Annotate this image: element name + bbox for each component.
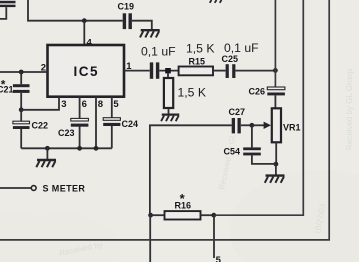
capacitor C23 — [71, 118, 89, 126]
wire pin 8 to bus — [95, 97, 97, 149]
svg-text:C21: C21 — [0, 84, 14, 94]
svg-text:C27: C27 — [229, 107, 246, 117]
S METER terminal circle — [31, 186, 36, 191]
ground bus under IC5 — [21, 147, 112, 149]
wire node to C21 — [20, 72, 22, 84]
arrow wiper of VR1 — [264, 122, 271, 129]
capacitor C25 — [226, 64, 236, 78]
paper texture blob — [0, 210, 120, 262]
wire node to R16 — [151, 214, 165, 216]
capacitor C27 — [232, 118, 241, 133]
op-amp IC5 — [48, 45, 125, 97]
node junction bus pin8 — [94, 146, 99, 151]
node junction C21/C22 — [19, 107, 24, 112]
node junction R16 right — [211, 213, 216, 218]
node junction bus ground tap — [45, 146, 50, 151]
wire C27 left to vertical feed — [150, 125, 232, 215]
capacitor C19 — [123, 13, 132, 29]
wire bus to ground — [46, 148, 48, 159]
wire node to ground — [275, 164, 277, 175]
svg-text:IC5: IC5 — [74, 64, 100, 79]
svg-text:5: 5 — [113, 99, 119, 110]
capacitor C24 — [103, 118, 120, 126]
potentiometer VR1 — [272, 108, 281, 142]
wire node to pin 3 — [21, 97, 59, 110]
svg-text:R16: R16 — [175, 201, 192, 211]
svg-text:C22: C22 — [32, 121, 49, 131]
wire VR1 bottom to node — [275, 142, 277, 164]
svg-text:Received by GL Group: Received by GL Group — [345, 68, 354, 150]
wire pin 5 to C24 — [111, 97, 113, 118]
wire C24 to bus — [111, 126, 113, 149]
wire pin 2 from left edge — [0, 71, 48, 73]
paper texture blob — [230, 170, 359, 262]
capacitor C22 — [13, 121, 30, 129]
ground for bus — [36, 160, 56, 167]
svg-text:2: 2 — [41, 62, 46, 73]
partial ground at top edge — [210, 0, 222, 3]
node junction C21 top — [19, 70, 24, 75]
wire R16 to node — [201, 214, 214, 216]
ground for shunt resistor — [161, 115, 179, 122]
svg-text:5: 5 — [216, 255, 222, 262]
svg-text:1: 1 — [126, 61, 132, 72]
node junction main vertical — [273, 68, 278, 73]
svg-text:C26: C26 — [249, 87, 266, 97]
wire node to VR1 wiper arrow — [252, 124, 264, 126]
node junction bus C23 — [77, 146, 82, 151]
svg-text:3: 3 — [61, 99, 66, 110]
resistor 1,5 K shunt — [164, 78, 173, 108]
ground for VR1 — [265, 176, 285, 183]
capacitor 0,1 uF coupling — [150, 62, 159, 78]
svg-text:1,5 K: 1,5 K — [178, 86, 206, 100]
svg-text:C23: C23 — [58, 128, 75, 138]
svg-text:1,5 K: 1,5 K — [186, 42, 214, 56]
wire shunt resistor to ground — [168, 108, 170, 114]
node junction at pin4 wire — [82, 18, 87, 23]
wire IC5 pin 1 — [124, 70, 150, 72]
node junction VR1 bottom — [274, 162, 279, 167]
resistor R15 — [179, 67, 213, 76]
svg-text:0,1 uF: 0,1 uF — [224, 41, 259, 55]
wire vertical from top to C26 — [274, 0, 276, 87]
capacitor C54 — [243, 147, 261, 155]
wire C23 to bus — [79, 126, 81, 148]
svg-text:6: 6 — [82, 99, 87, 110]
wire node down to pin 5 stub — [213, 215, 215, 258]
wire node to IC5 pin 4 — [83, 21, 85, 45]
node junction R16 left — [148, 213, 153, 218]
S METER terminal wire — [0, 187, 31, 189]
wire pin 6 to C23 — [79, 97, 81, 119]
wire node to C54 — [251, 125, 253, 147]
wire node to C22 — [20, 110, 22, 121]
wire C22 to bus — [20, 129, 22, 149]
wire C25 to node — [235, 70, 275, 72]
node junction square to shunt resistor — [165, 68, 171, 73]
capacitor partial top-left, plate 1 — [0, 1, 16, 4]
svg-text:R15: R15 — [189, 56, 206, 66]
svg-text:C54: C54 — [224, 147, 241, 157]
capacitor partial top-left, plate 2 — [0, 5, 16, 7]
wire C54 to VR1 bottom node — [252, 155, 276, 164]
node junction C27/C54 — [250, 123, 255, 128]
wire stub from top-left capacitor to left edge — [0, 7, 6, 19]
capacitor C26 — [267, 87, 285, 95]
resistor R16 — [165, 211, 201, 219]
wire node to shunt resistor — [167, 73, 169, 78]
capacitor C21 — [13, 84, 30, 93]
wire R15 to C25 — [213, 70, 226, 72]
wire cap to R15 — [159, 70, 178, 72]
svg-text:VR1: VR1 — [283, 123, 301, 133]
svg-text:C24: C24 — [122, 119, 139, 129]
wire from top edge to C19 node — [28, 0, 123, 21]
wire node up right vertical — [214, 0, 303, 215]
wire C27 right to node — [241, 124, 252, 126]
ground for C19 — [140, 30, 160, 37]
wire vertical feed to bottom edge — [149, 215, 151, 262]
svg-text:S METER: S METER — [43, 183, 86, 193]
wire C21 to node — [20, 93, 22, 110]
svg-text:0,1 uF: 0,1 uF — [141, 45, 176, 59]
wire C26 to VR1 — [274, 95, 276, 108]
svg-text:C25: C25 — [222, 54, 239, 64]
svg-text:C19: C19 — [118, 2, 135, 12]
svg-text:8: 8 — [98, 99, 103, 110]
wire C19 to ground — [132, 21, 152, 30]
